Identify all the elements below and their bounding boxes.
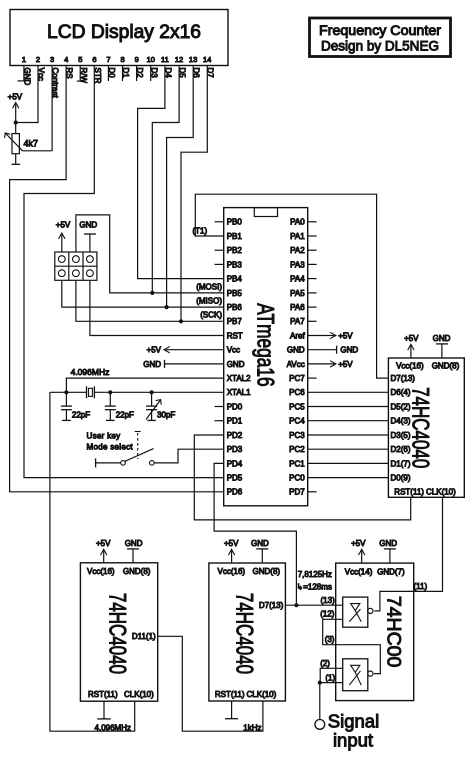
wire ISP pin MOSI to PB5 (76, 215, 224, 293)
svg-text:2: 2 (36, 55, 40, 64)
svg-text:PB7: PB7 (227, 317, 243, 326)
svg-text:74HC00: 74HC00 (383, 596, 405, 668)
pin stub PD0 (215, 406, 224, 408)
node gate net junction (294, 603, 298, 607)
ground pot (12, 163, 21, 165)
svg-text:AVcc: AVcc (287, 360, 305, 369)
label 74HC00 (383, 596, 405, 668)
svg-text:RST(11): RST(11) (88, 690, 118, 699)
svg-text:PD0: PD0 (227, 402, 243, 411)
U3 RST CLK labels (88, 690, 154, 699)
svg-text:PD5: PD5 (227, 474, 243, 483)
svg-text:D1(7): D1(7) (391, 459, 411, 468)
svg-text:Vcc(14): Vcc(14) (345, 567, 373, 576)
node Vcc junction (14, 120, 18, 124)
label 74HC4040 middle (231, 593, 258, 674)
wire switch to PD3 (154, 449, 224, 463)
svg-text:Mode select: Mode select (87, 442, 134, 451)
svg-text:Design by DL5NEG: Design by DL5NEG (321, 39, 439, 54)
svg-text:Vcc(16): Vcc(16) (87, 567, 115, 576)
counter IC U4 74HC4040 body (209, 563, 286, 701)
svg-text:+5V: +5V (338, 360, 353, 369)
counter IC U2 74HC4040 body (388, 358, 464, 497)
title box Frequency Counter (310, 18, 451, 57)
wire PD2 to right counter RST (194, 435, 410, 520)
svg-text:PA0: PA0 (290, 218, 305, 227)
node D6-MISO junction (165, 305, 169, 309)
resistor 4k7 potentiometer (12, 123, 19, 165)
capacitor C2 22pF (105, 392, 134, 420)
svg-text:PB6: PB6 (227, 303, 243, 312)
node D7-SCK junction (179, 319, 183, 323)
svg-text:PC5: PC5 (289, 402, 305, 411)
wire ISP pin SCK to PB7 (76, 280, 224, 321)
crystal Q1 4.096MHz (87, 386, 95, 398)
svg-text:9: 9 (135, 55, 139, 64)
svg-text:CLK(10): CLK(10) (247, 690, 277, 699)
U5 Vcc GND pins (345, 567, 405, 576)
capacitor C3 30pF trimmer (146, 392, 175, 420)
svg-text:input: input (333, 730, 373, 751)
svg-text:GND: GND (227, 360, 245, 369)
svg-text:4k7: 4k7 (24, 139, 39, 149)
label (13) (321, 596, 336, 605)
svg-text:PA4: PA4 (290, 275, 305, 284)
svg-text:PA7: PA7 (290, 317, 305, 326)
label 4.096MHz net (95, 724, 131, 733)
svg-text:PD2: PD2 (227, 431, 243, 440)
LCD pin 9 D2 stub (136, 66, 138, 82)
U2 Vcc GND pins (396, 361, 459, 370)
svg-text:D3(5): D3(5) (391, 431, 411, 440)
svg-text:D2(6): D2(6) (391, 445, 411, 454)
svg-text:PB0: PB0 (227, 218, 243, 227)
LCD title (47, 22, 201, 43)
svg-text:12: 12 (175, 55, 183, 64)
svg-text:GND: GND (379, 539, 397, 548)
svg-text:PB4: PB4 (227, 275, 243, 284)
label 4.096MHz crystal (71, 367, 110, 377)
wire PB1 T1 to counter D7 (195, 194, 388, 378)
svg-text:GND: GND (125, 539, 143, 548)
label User key (87, 431, 121, 440)
svg-text:D7(13): D7(13) (391, 374, 416, 383)
svg-text:8: 8 (121, 55, 125, 64)
svg-text:D4(3): D4(3) (391, 417, 411, 426)
label (12) (320, 610, 335, 619)
wire crystal rail left (50, 391, 87, 393)
connector ISP header (55, 252, 97, 280)
+5V flag at U2 (404, 334, 419, 358)
svg-text:D5(2): D5(2) (391, 402, 411, 411)
node crystal trimmer junction (150, 390, 154, 394)
label 7,8125Hz (298, 570, 332, 579)
wire gate A input 2 (320, 668, 343, 682)
svg-text:PC2: PC2 (289, 445, 305, 454)
svg-text:PD7: PD7 (289, 488, 305, 497)
wire gate A input 1 (320, 682, 343, 684)
LCD module box (10, 10, 228, 66)
svg-text:PC4: PC4 (289, 417, 305, 426)
GND flag at U5 (379, 539, 397, 563)
svg-text:(MISO): (MISO) (196, 297, 222, 306)
svg-text:PA3: PA3 (290, 260, 305, 269)
op IC ATmega16 body (224, 208, 308, 506)
pin stub PC7 (308, 377, 317, 379)
counter IC U3 74HC4040 body (80, 563, 157, 701)
svg-text:GND(8): GND(8) (432, 361, 460, 370)
pin stubs PA0-PA7 (308, 222, 317, 321)
LCD pin 5 R/W grounded (77, 66, 84, 82)
NAND gate A (343, 659, 373, 691)
svg-text:PD3: PD3 (227, 445, 243, 454)
+5V flag at LCD Vcc (8, 93, 23, 123)
svg-text:Vcc(16): Vcc(16) (218, 567, 246, 576)
ground U4 RST (225, 701, 238, 719)
wire U2 CLK to gate output (374, 497, 442, 611)
GND flag at ISP (79, 221, 97, 253)
label 1kHz net (243, 724, 261, 733)
wire D5 pin12 to MOSI net (152, 66, 179, 293)
NAND gate B (343, 597, 373, 627)
svg-text:+5V: +5V (8, 93, 23, 102)
LCD pin 8 D1 stub (122, 66, 124, 82)
svg-text:30pF: 30pF (157, 410, 175, 419)
pin stub PB2 (215, 249, 224, 251)
wire D7 pin14 to SCK net (181, 66, 207, 322)
U2 RST CLK labels (394, 487, 456, 496)
svg-text:XTAL2: XTAL2 (227, 374, 251, 383)
terminal signal input (315, 720, 325, 730)
svg-text:PA6: PA6 (290, 303, 305, 312)
svg-text:GND: GND (433, 334, 451, 343)
label =128ms (297, 583, 332, 592)
svg-text:74HC4040: 74HC4040 (407, 387, 434, 468)
wire D4 pin11 to PB4 (138, 66, 224, 279)
node signal junction (318, 681, 322, 685)
svg-text:LCD Display 2x16: LCD Display 2x16 (47, 22, 201, 43)
wire ISP pin RST to RST (90, 280, 224, 335)
svg-text:PA2: PA2 (290, 246, 305, 255)
svg-text:Vcc: Vcc (227, 346, 240, 355)
label (MISO) (196, 297, 222, 306)
svg-text:GND(7): GND(7) (377, 567, 405, 576)
svg-text:74HC4040: 74HC4040 (231, 593, 258, 674)
wire signal input (319, 683, 321, 720)
svg-text:1: 1 (22, 55, 26, 64)
svg-text:GND: GND (251, 539, 269, 548)
+5V flag at U3 (96, 539, 111, 563)
svg-text:4: 4 (64, 55, 68, 64)
U2 D output labels (391, 374, 416, 483)
svg-text:ATmega16: ATmega16 (251, 303, 278, 386)
svg-text:PB2: PB2 (227, 246, 243, 255)
svg-text:PD1: PD1 (227, 417, 243, 426)
wire STR pin6 to PD5 net (24, 66, 224, 478)
wire crystal net to left counter CLK (50, 392, 135, 731)
svg-text:PA1: PA1 (290, 232, 305, 241)
svg-text:4.096MHz: 4.096MHz (95, 724, 131, 733)
svg-text:Aref: Aref (290, 331, 305, 340)
label (T1) (193, 226, 208, 235)
svg-text:GND: GND (79, 221, 97, 230)
svg-text:PA5: PA5 (290, 289, 305, 298)
svg-text:5: 5 (78, 55, 82, 64)
svg-text:User key: User key (87, 431, 121, 440)
label (11) (414, 582, 428, 591)
wires PC6-PC0 to counter D6-D0 (308, 392, 389, 477)
ground U3 RST (97, 701, 111, 719)
svg-text:(SCK): (SCK) (200, 311, 222, 320)
svg-text:CLK(10): CLK(10) (124, 690, 154, 699)
node crystal cap2 junction (108, 390, 112, 394)
svg-text:(3): (3) (325, 635, 335, 644)
svg-text:13: 13 (189, 55, 197, 64)
svg-text:GND: GND (287, 346, 305, 355)
+5V flag at ISP (56, 221, 71, 253)
gate IC U5 74HC00 body (336, 563, 414, 701)
+5V flag at Vcc (147, 346, 224, 355)
pin stub PD1 (215, 420, 224, 422)
svg-text:22pF: 22pF (116, 410, 134, 419)
svg-text:RST: RST (227, 331, 243, 340)
label 4k7 (24, 139, 39, 149)
svg-text:RST(11): RST(11) (394, 487, 424, 496)
svg-text:XTAL1: XTAL1 (227, 388, 251, 397)
pin stub PD7 (308, 491, 317, 493)
label (2) (320, 659, 330, 668)
svg-text:PD6: PD6 (227, 488, 243, 497)
node D5-MOSI junction (150, 291, 154, 295)
svg-text:22pF: 22pF (72, 410, 90, 419)
svg-text:+5V: +5V (147, 346, 162, 355)
svg-text:D0(9): D0(9) (391, 474, 411, 483)
switch S1 user key (96, 449, 155, 468)
svg-text:PB1: PB1 (227, 232, 243, 241)
label ATmega16 (251, 303, 278, 386)
GND flag at U4 (251, 539, 269, 563)
U4 D7 label (259, 601, 284, 610)
pin stub PB0 (215, 221, 224, 223)
svg-text:+5V: +5V (224, 539, 239, 548)
svg-text:(11): (11) (414, 582, 428, 591)
U4 Vcc GND pins (218, 567, 281, 576)
svg-text:7,8125Hz: 7,8125Hz (298, 570, 332, 579)
svg-text:4.096MHz: 4.096MHz (71, 367, 110, 377)
GND flag at GND (143, 360, 223, 369)
svg-text:+5V: +5V (56, 221, 71, 230)
svg-text:(2): (2) (320, 659, 330, 668)
pin stub PB3 (215, 263, 224, 265)
label (3) (325, 635, 335, 644)
wire U3 D11 to middle counter CLK 1kHz (158, 636, 263, 731)
svg-text:D6(4): D6(4) (391, 388, 411, 397)
svg-text:↳=128ms: ↳=128ms (297, 583, 332, 592)
+5V flag at AVcc (308, 360, 354, 369)
U3 Vcc GND pins (87, 567, 151, 576)
LCD pin 10 D3 stub (150, 66, 152, 82)
svg-text:PB3: PB3 (227, 260, 243, 269)
svg-text:(MOSI): (MOSI) (196, 282, 222, 291)
svg-text:PD4: PD4 (227, 459, 243, 468)
wire XTAL2 to crystal (66, 378, 223, 392)
svg-text:GND(8): GND(8) (123, 567, 151, 576)
svg-text:CLK(10): CLK(10) (426, 487, 456, 496)
wire ISP pin MISO to PB6 (62, 280, 224, 307)
pot wiper arrow (5, 133, 23, 151)
svg-text:PC6: PC6 (289, 388, 305, 397)
label 74HC4040 right (407, 387, 434, 468)
svg-text:+5V: +5V (96, 539, 111, 548)
LCD pin 2 Vcc wire (16, 66, 38, 123)
svg-text:PC3: PC3 (289, 431, 305, 440)
svg-text:Vcc(16): Vcc(16) (396, 361, 424, 370)
svg-text:(1): (1) (325, 673, 335, 682)
svg-text:GND(8): GND(8) (253, 567, 281, 576)
label 74HC4040 left (104, 593, 131, 674)
wire D6 pin13 to MISO net (167, 66, 194, 308)
LCD pin labels (22, 68, 214, 99)
label Mode select (87, 442, 134, 451)
svg-text:Frequency Counter: Frequency Counter (319, 23, 441, 38)
ATmega16 right pin names (287, 218, 306, 497)
svg-text:74HC4040: 74HC4040 (104, 593, 131, 674)
LCD pin 3 Contrast wire (51, 66, 53, 151)
wire pot wiper to Contrast (23, 150, 53, 152)
svg-text:+5V: +5V (404, 334, 419, 343)
svg-text:RST(11): RST(11) (215, 690, 245, 699)
svg-text:3: 3 (50, 55, 54, 64)
GND flag at U3 (125, 539, 143, 563)
+5V flag at U4 (224, 539, 239, 563)
LCD pin 1 GND wire (18, 66, 25, 81)
LCD pin numbers 1-14 (22, 55, 212, 64)
U4 RST CLK labels (215, 690, 277, 699)
wire gate A out to gate B in 12 (323, 619, 381, 673)
svg-text:GND: GND (143, 360, 161, 369)
svg-text:Signal: Signal (328, 710, 379, 731)
label (MOSI) (196, 282, 222, 291)
wire PD4 to gate net (214, 463, 296, 605)
svg-text:10: 10 (147, 55, 155, 64)
svg-text:6: 6 (92, 55, 96, 64)
svg-text:PB5: PB5 (227, 289, 243, 298)
capacitor C1 22pF (61, 392, 90, 420)
svg-text:(13): (13) (321, 596, 336, 605)
svg-text:1kHz: 1kHz (243, 724, 261, 733)
GND flag right (308, 346, 359, 355)
svg-text:14: 14 (203, 55, 211, 64)
svg-text:GND: GND (340, 346, 358, 355)
U3 D11 label (132, 632, 156, 641)
user key press indicator (135, 432, 141, 460)
svg-text:PC0: PC0 (289, 474, 305, 483)
svg-text:(12): (12) (320, 610, 335, 619)
ATmega16 left pin names (227, 218, 251, 497)
svg-text:11: 11 (161, 55, 169, 64)
svg-text:7: 7 (106, 55, 110, 64)
label (1) (325, 673, 335, 682)
svg-text:D7(13): D7(13) (259, 601, 284, 610)
svg-text:D11(1): D11(1) (132, 632, 156, 641)
node XTAL2 junction (64, 390, 68, 394)
LCD pin 7 D0 stub (107, 66, 109, 82)
svg-text:PC7: PC7 (289, 374, 305, 383)
GND flag at U2 (433, 334, 451, 358)
svg-text:PC1: PC1 (289, 459, 305, 468)
wire XTAL1 crystal rail right (94, 391, 223, 393)
+5V flag at Aref (308, 331, 354, 340)
label (SCK) (200, 311, 222, 320)
svg-text:+5V: +5V (351, 539, 366, 548)
+5V flag at U5 (351, 539, 366, 563)
svg-text:+5V: +5V (338, 331, 353, 340)
label Signal input (328, 710, 379, 750)
wire RS pin4 to PD6 net (10, 66, 224, 492)
wire U4 D7 to gate input 13 (285, 604, 342, 606)
